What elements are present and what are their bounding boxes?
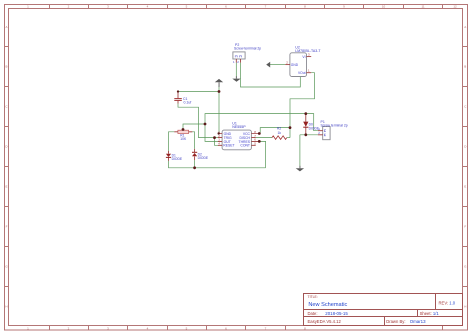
svg-text:B: B	[464, 65, 466, 69]
svg-text:CONT: CONT	[240, 144, 250, 148]
svg-text:Screw terminal 2p: Screw terminal 2p	[321, 123, 348, 127]
resistor R2 zigzag	[272, 136, 287, 140]
svg-text:H: H	[5, 305, 7, 309]
connector P2 screw terminal	[233, 52, 245, 59]
wire C1 top to ground junction	[178, 91, 219, 93]
label U2 LM7805L-TA3-T	[295, 45, 321, 53]
svg-text:DIODE: DIODE	[172, 157, 183, 161]
wire DISCH to R2	[256, 137, 272, 139]
ground flag up arrow at 555 GND net	[215, 79, 223, 87]
wire pot right to D2	[189, 132, 195, 149]
ground arrow at bottom right net	[296, 166, 304, 172]
P2 internal marks	[235, 56, 241, 58]
ground arrow left at U2 GND	[266, 62, 270, 68]
svg-text:Omar13: Omar13	[410, 319, 426, 324]
svg-text:F: F	[6, 225, 8, 229]
label P1 Screw terminal 2p	[321, 120, 348, 127]
wire R2 right lead	[287, 137, 290, 139]
svg-text:C: C	[5, 105, 8, 109]
U2 pin names	[291, 55, 306, 75]
op-amp U1 NE555P box	[222, 130, 251, 150]
wire VCC dogleg to VOut net	[259, 128, 290, 134]
U1 pin numbers	[218, 130, 256, 146]
svg-text:2: 2	[237, 60, 239, 64]
svg-text:2018-05-15: 2018-05-15	[325, 311, 348, 316]
svg-text:RESET: RESET	[223, 144, 234, 148]
wire U1 OUT net to P1 pin1	[205, 114, 318, 142]
P1 internal marks	[324, 130, 326, 136]
svg-text:A: A	[5, 25, 7, 29]
svg-text:New Schematic: New Schematic	[308, 302, 347, 308]
svg-text:F: F	[464, 225, 466, 229]
label P2 Screw terminal 2p	[234, 43, 261, 50]
svg-text:1: 1	[308, 69, 310, 73]
svg-text:11: 11	[421, 4, 424, 8]
diode D0	[303, 114, 308, 135]
svg-text:E: E	[5, 185, 7, 189]
wire U2 GND to ground arrow	[270, 64, 285, 66]
svg-text:C: C	[464, 105, 467, 109]
wire D1 D2 THRES bottom net	[169, 161, 266, 168]
wire P2 pin2 to U2 bottom	[241, 63, 301, 87]
svg-text:D: D	[464, 145, 467, 149]
wire THRES dogleg	[259, 141, 265, 167]
svg-text:Drawn By:: Drawn By:	[386, 319, 405, 324]
label R1 10K	[180, 133, 187, 141]
svg-text:5: 5	[254, 142, 256, 146]
connector P1 screw terminal	[323, 127, 330, 140]
label R2 1k	[277, 127, 281, 136]
svg-text:Sheet: 1/1: Sheet: 1/1	[420, 311, 440, 316]
svg-text:VI: VI	[302, 55, 305, 59]
svg-text:2: 2	[286, 60, 288, 64]
U1 pin names	[223, 132, 234, 148]
wire D0 to P1 pin2	[300, 134, 318, 136]
wire P2 pin1 to ground	[235, 63, 237, 77]
U1 pin stubs	[218, 134, 259, 146]
svg-text:Screw terminal 2p: Screw terminal 2p	[234, 47, 261, 51]
svg-text:DIODE: DIODE	[198, 156, 209, 160]
svg-text:3: 3	[308, 52, 310, 56]
svg-text:G: G	[464, 265, 467, 269]
U2 pin stubs	[285, 57, 311, 73]
regulator U2 LM7805 box	[290, 53, 307, 77]
TITLEBLOCK-START	[304, 294, 463, 326]
svg-text:R2: R2	[277, 127, 281, 131]
label D2 DIODE	[198, 152, 209, 160]
svg-text:G: G	[5, 265, 8, 269]
P2 pin stubs	[236, 59, 240, 63]
wire TRIG-RESET link	[215, 138, 219, 146]
svg-text:E: E	[464, 185, 466, 189]
svg-text:D: D	[5, 145, 8, 149]
wire ground flag to U1 GND pin	[218, 86, 220, 134]
svg-text:A: A	[464, 25, 466, 29]
svg-text:NE555P: NE555P	[232, 125, 246, 129]
svg-text:10K: 10K	[180, 137, 187, 141]
P1 pin numbers	[318, 127, 320, 135]
P2 pin numbers	[233, 60, 239, 64]
svg-text:10: 10	[382, 4, 386, 8]
svg-text:1k: 1k	[278, 131, 282, 135]
diode D2	[192, 149, 197, 160]
svg-text:TITLE:: TITLE:	[308, 295, 318, 299]
label C1 value	[183, 97, 191, 105]
svg-text:12: 12	[453, 4, 457, 8]
svg-text:Date:: Date:	[308, 311, 318, 316]
junction dots	[177, 90, 307, 169]
svg-text:REV: 1.0: REV: 1.0	[439, 301, 456, 306]
capacitor C1	[174, 92, 182, 104]
svg-text:0.1uf: 0.1uf	[184, 101, 192, 105]
svg-text:1: 1	[233, 60, 235, 64]
svg-text:B: B	[5, 65, 7, 69]
SCHEMATIC-START	[169, 63, 318, 168]
svg-text:GND: GND	[291, 63, 299, 67]
wire U2 VOut down-left-down net	[290, 73, 315, 138]
diode D1	[166, 151, 171, 161]
wire C1 bottom to U1 TRIG	[178, 104, 219, 138]
svg-text:EasyEDA V5.4.12: EasyEDA V5.4.12	[308, 319, 342, 324]
svg-text:H: H	[464, 305, 466, 309]
label D1 DIODE	[172, 154, 183, 162]
wire D2 bottom lead	[194, 160, 196, 168]
P1 pin stubs	[318, 131, 323, 135]
label D0 DIODE	[309, 123, 320, 131]
wire P1 pin2 net to ground	[299, 135, 301, 166]
potentiometer R1 10K	[174, 129, 192, 134]
label U1 NE555P	[232, 121, 246, 129]
U2 pin numbers	[286, 52, 310, 72]
wire pot wiper to OUT net	[183, 124, 205, 130]
svg-text:VOut: VOut	[298, 71, 306, 75]
wire pot left to D1	[169, 132, 175, 151]
ground arrow at P2 pin1	[232, 76, 240, 82]
